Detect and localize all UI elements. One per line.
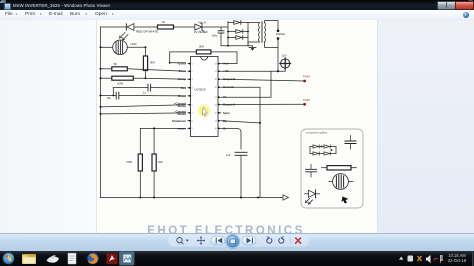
resistor R5 470K xyxy=(138,154,142,171)
taskbar xyxy=(0,251,474,266)
explorer folder icon xyxy=(22,254,36,264)
wire -Current Sense xyxy=(101,113,186,114)
firefox icon xyxy=(87,253,98,264)
wire Output B to PWM xyxy=(222,79,305,81)
svg-text:RED OR WHITE: RED OR WHITE xyxy=(136,30,158,34)
rotate ccw xyxy=(267,238,272,243)
capacitor C2 1u (Css) xyxy=(113,84,185,95)
wire Vref net xyxy=(211,52,237,64)
wire xyxy=(174,26,195,28)
tray arrow xyxy=(399,257,403,260)
resistor R4 100K xyxy=(100,76,186,80)
left bus wire xyxy=(100,27,102,198)
wire xyxy=(134,26,158,28)
capacitor C1 100u xyxy=(218,31,224,37)
IC U1 UC3526 PWM controller xyxy=(191,57,219,137)
svg-text:100K: 100K xyxy=(117,81,123,85)
svg-text:10u: 10u xyxy=(107,96,112,100)
svg-text:PWM: PWM xyxy=(303,75,311,79)
svg-text:22K: 22K xyxy=(158,160,163,164)
transformer T1 xyxy=(248,21,278,72)
dove icon xyxy=(47,255,60,262)
node 230Vac xyxy=(277,30,280,33)
wire LDR to R2 xyxy=(145,47,147,56)
svg-text:1uF: 1uF xyxy=(226,153,231,157)
notes page icon xyxy=(68,253,76,264)
resistor R6 22K xyxy=(152,154,156,171)
LDR LDR1 xyxy=(100,40,147,55)
photo (white) xyxy=(96,20,378,233)
IC left pin pads xyxy=(187,63,191,130)
wire pin9 to timing resistors xyxy=(140,128,185,154)
prev button xyxy=(211,236,225,245)
component gallery box xyxy=(301,129,363,208)
svg-text:5K: 5K xyxy=(114,62,118,66)
svg-text:Shutdown: Shutdown xyxy=(172,119,186,123)
capacitor C4 1uF xyxy=(235,152,247,197)
wire Cr to C4 xyxy=(222,129,242,150)
wire Rp to ground rail xyxy=(222,121,261,123)
wire +Error net xyxy=(170,52,197,63)
tray icons xyxy=(408,256,414,262)
start orb xyxy=(3,253,15,265)
wire Vc to 12V rail xyxy=(222,71,272,97)
magnifier xyxy=(177,238,182,243)
app icon xyxy=(4,3,11,10)
svg-text:UC3526: UC3526 xyxy=(195,88,206,92)
window buttons xyxy=(437,1,456,11)
gallery polarized capacitor xyxy=(306,165,317,178)
resistor R1 1K xyxy=(158,25,174,29)
play button xyxy=(226,234,240,248)
svg-text:100u: 100u xyxy=(212,34,218,38)
wire Output A to PWM xyxy=(222,103,305,105)
bottom control bar xyxy=(0,233,474,252)
show desktop sliver xyxy=(472,251,474,266)
gallery LDR xyxy=(329,174,353,190)
svg-text:400mW: 400mW xyxy=(198,21,207,24)
wire Ground pin to bus xyxy=(222,87,261,197)
svg-text:component gallery: component gallery xyxy=(306,131,328,135)
capacitor C3 10u (Reset) xyxy=(100,92,186,99)
svg-text:LDR: LDR xyxy=(131,42,138,46)
top wire xyxy=(101,26,127,28)
active app (photo viewer) button xyxy=(119,251,135,265)
rotate cw xyxy=(279,238,284,243)
SCHEMATIC SVG xyxy=(96,20,377,233)
svg-text:1K: 1K xyxy=(162,20,165,24)
next button xyxy=(242,236,256,245)
title bar xyxy=(0,0,474,10)
svg-text:3K9: 3K9 xyxy=(199,44,204,48)
node PWM B xyxy=(303,80,306,83)
pan/fit icon xyxy=(197,236,205,244)
wire bridge bottom xyxy=(221,46,253,48)
power source V1 12V xyxy=(280,58,291,69)
svg-text:470K: 470K xyxy=(126,160,132,164)
cluster panel xyxy=(168,235,310,247)
wire +Current Sense xyxy=(101,105,186,107)
IC right pin pads xyxy=(218,63,222,130)
gallery capacitor xyxy=(345,136,356,150)
resistor R7 3K9 (Vref) xyxy=(196,50,211,54)
svg-text:12V: 12V xyxy=(282,53,287,57)
viewer content background: left margin xyxy=(0,20,96,233)
bottom bus wire xyxy=(101,197,259,199)
resistor R2 3K9 vertical xyxy=(143,56,147,71)
gallery LED xyxy=(305,190,320,204)
svg-text:1u: 1u xyxy=(143,91,146,95)
svg-text:230Vac: 230Vac xyxy=(276,32,286,36)
menu/tool bar xyxy=(0,10,474,21)
diode bridge D3-D5 xyxy=(227,21,249,46)
right margin xyxy=(377,20,474,233)
ground xyxy=(249,48,256,51)
gallery resistor xyxy=(322,166,357,170)
svg-text:PWM: PWM xyxy=(303,98,311,102)
delete X button xyxy=(296,238,301,243)
svg-text:Sense: Sense xyxy=(177,112,186,116)
separator xyxy=(289,237,291,245)
resistor R3 5K xyxy=(100,67,186,71)
svg-text:-Error: -Error xyxy=(178,69,187,73)
watermark xyxy=(135,225,317,233)
help icon xyxy=(463,12,469,18)
node PWM A xyxy=(303,103,306,106)
svg-text:Sync: Sync xyxy=(223,111,230,115)
gallery cursor mark xyxy=(342,197,349,204)
LED D1 xyxy=(120,24,134,40)
ground arrow at bus end xyxy=(258,195,289,200)
svg-text:Reset: Reset xyxy=(178,94,186,98)
gallery diode bridge xyxy=(310,145,336,155)
IC right pin labels xyxy=(223,62,236,131)
svg-text:+wave: +wave xyxy=(177,126,186,130)
svg-text:Comp: Comp xyxy=(178,77,186,81)
svg-text:+Error: +Error xyxy=(177,62,187,66)
cursor highlight xyxy=(0,0,1,1)
IC left pin labels xyxy=(172,62,187,131)
wire +Vin net / node 12V xyxy=(222,68,286,71)
wire zener to bridge xyxy=(202,22,228,46)
svg-text:Css: Css xyxy=(181,86,187,90)
svg-text:3K9: 3K9 xyxy=(150,60,155,64)
zener D2 0V ZENER xyxy=(195,23,204,31)
clock xyxy=(444,253,470,266)
adobe reader icon xyxy=(107,253,118,264)
svg-text:Sense: Sense xyxy=(177,104,186,108)
svg-text:0V ZENER: 0V ZENER xyxy=(194,30,208,34)
IC pin numbers xyxy=(192,63,194,130)
